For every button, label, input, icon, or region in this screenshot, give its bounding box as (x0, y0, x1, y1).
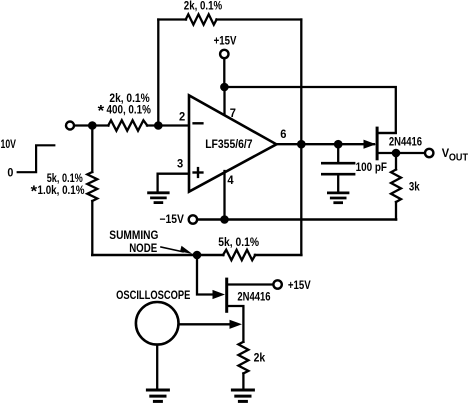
wire -15V rail corner up to 3k (395, 202, 397, 220)
svg-text:0: 0 (7, 168, 13, 180)
wire feedback left vertical from top 2k to inverting node (157, 20, 159, 126)
ground below oscilloscope (147, 389, 168, 392)
wire op-amp output pin 6 to JFET gate (275, 143, 374, 145)
oscilloscope probe circle (136, 302, 179, 345)
op-amp inverting input minus sign (194, 122, 203, 124)
svg-text:2N4416: 2N4416 (389, 136, 422, 148)
wire feedback right vertical (output column) (300, 20, 302, 256)
terminal VOUT open circle (425, 149, 433, 157)
ground at op-amp pin 3 (149, 191, 169, 194)
node input junction (88, 121, 97, 130)
resistor R summing 5k 0.1% (223, 250, 255, 260)
svg-text:−15V: −15V (160, 214, 185, 226)
resistor R left 5k 0.1% (*1.0k 0.1%) (87, 172, 97, 201)
svg-text:OSCILLOSCOPE: OSCILLOSCOPE (116, 290, 190, 302)
node VOUT source junction (392, 149, 401, 158)
svg-text:2k, 0.1%: 2k, 0.1% (109, 93, 149, 105)
transistor Q1 drain lead (378, 132, 396, 134)
resistor R 3k (391, 170, 401, 203)
wire +15V rail to upper JFET drain (225, 87, 396, 133)
arrowhead summing node callout (180, 246, 193, 254)
svg-text:4: 4 (227, 175, 234, 187)
wire oscilloscope to JFET source (179, 323, 231, 325)
transistor Q1 2N4416 channel bar (376, 128, 379, 159)
node capacitor junction (334, 140, 343, 149)
ground below 2k (232, 389, 253, 392)
svg-text:2: 2 (179, 112, 185, 124)
svg-text:+15V: +15V (288, 280, 311, 292)
capacitor C1 100 pF stub top (337, 144, 339, 162)
capacitor C1 stub bottom (337, 176, 339, 192)
svg-text:2k: 2k (254, 353, 266, 365)
input step waveform annotation (18, 145, 55, 172)
wire top feedback right lead (216, 18, 301, 20)
transistor Q2 drain lead to +15V (228, 283, 274, 285)
arrowhead gate Q1 (364, 140, 377, 149)
svg-text:SUMMING: SUMMING (109, 230, 158, 242)
capacitor C1 100 pF plates (322, 162, 354, 165)
node summing node junction (193, 251, 202, 260)
wire oscilloscope ground stub (156, 345, 158, 389)
resistor R 2k bottom lead (242, 373, 244, 388)
wire summing node down to lower JFET gate (197, 255, 212, 295)
wire top feedback left lead (158, 18, 186, 20)
resistor R 3k top lead (395, 153, 397, 170)
transistor Q2 source lead (228, 306, 244, 342)
svg-text:1.0k, 0.1%: 1.0k, 0.1% (38, 185, 85, 197)
svg-text:3k: 3k (409, 182, 420, 194)
svg-text:+15V: +15V (214, 36, 237, 48)
node output feedback junction (297, 140, 306, 149)
svg-text:*: * (98, 103, 106, 120)
wire +15V terminal stub (223, 59, 225, 88)
svg-text:5k, 0.1%: 5k, 0.1% (47, 173, 83, 185)
terminal +15V lower open circle (273, 280, 281, 288)
svg-text:100 pF: 100 pF (356, 162, 387, 174)
svg-text:400, 0.1%: 400, 0.1% (107, 105, 151, 117)
svg-text:NODE: NODE (129, 243, 157, 255)
node pin 4 -15V junction (220, 215, 229, 224)
wire pin 4 to -15V rail (223, 171, 225, 220)
resistor R input 2k 0.1% (* 400 0.1%) (108, 120, 147, 130)
arrowhead oscilloscope line (230, 320, 243, 329)
transistor Q2 2N4416 channel bar (225, 279, 228, 311)
wire input node to pin 2 (147, 124, 189, 126)
svg-text:OUT: OUT (449, 153, 468, 164)
svg-text:2k, 0.1%: 2k, 0.1% (184, 1, 222, 13)
terminal input open circle (66, 122, 74, 130)
wire left 5k top lead (91, 126, 93, 173)
svg-text:LF355/6/7: LF355/6/7 (205, 139, 252, 151)
wire -15V rail (197, 218, 396, 221)
wire input line from terminal to op-amp pin 2 (74, 124, 109, 126)
wire source to VOUT terminal (396, 152, 425, 154)
wire pin 7 to +15V rail (223, 87, 225, 114)
wire summing node line right to output column (255, 254, 301, 257)
ground below capacitor C1 (328, 191, 348, 194)
svg-text:3: 3 (177, 159, 183, 171)
transistor Q1 source lead (378, 152, 396, 154)
op-amp non-inverting input plus sign (194, 171, 203, 173)
resistor R 2k (238, 342, 248, 374)
resistor R feedback 2k 0.1% (186, 14, 217, 24)
terminal +15V top open circle (220, 50, 228, 58)
op-amp U1 LF355/6/7 triangle (189, 95, 276, 191)
callout arrow line to summing node (161, 247, 183, 252)
svg-text:5k, 0.1%: 5k, 0.1% (218, 237, 259, 249)
svg-text:2N4416: 2N4416 (237, 291, 270, 303)
node inverting input junction (154, 121, 163, 130)
wire left 5k bottom lead down to summing line (91, 201, 93, 255)
svg-text:10V: 10V (1, 139, 17, 151)
arrowhead gate Q2 (213, 290, 226, 299)
terminal -15V open circle (189, 215, 197, 223)
wire pin 3 to ground (158, 174, 189, 192)
svg-text:7: 7 (230, 108, 236, 120)
wire summing node line left (92, 254, 223, 257)
svg-text:6: 6 (280, 129, 286, 141)
node pin 7 +15V junction (220, 83, 229, 92)
